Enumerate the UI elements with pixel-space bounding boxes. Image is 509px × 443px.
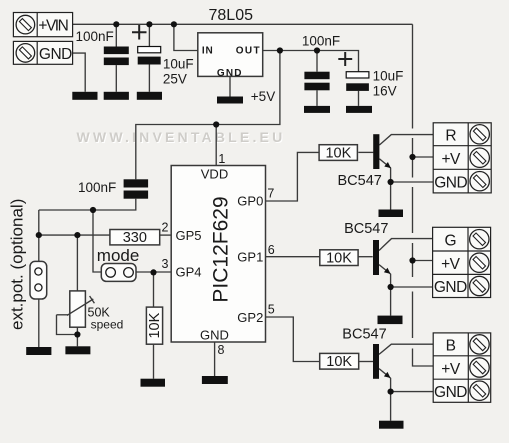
svg-text:8: 8 — [218, 343, 225, 357]
svg-text:+V: +V — [441, 361, 461, 378]
svg-text:6: 6 — [268, 243, 275, 257]
svg-text:100nF: 100nF — [76, 29, 114, 44]
svg-text:GND: GND — [434, 279, 467, 296]
svg-text:7: 7 — [267, 186, 274, 200]
svg-text:+V: +V — [441, 256, 461, 273]
svg-text:GP1: GP1 — [237, 250, 263, 265]
svg-text:B: B — [446, 338, 456, 355]
svg-text:10K: 10K — [326, 251, 352, 267]
svg-text:5: 5 — [268, 303, 275, 317]
svg-text:R: R — [445, 128, 456, 145]
svg-text:GP5: GP5 — [176, 228, 202, 243]
svg-text:GND: GND — [434, 174, 467, 191]
svg-text:100nF: 100nF — [302, 34, 340, 49]
svg-text:78L05: 78L05 — [209, 7, 254, 24]
svg-text:330: 330 — [123, 230, 147, 246]
svg-text:25V: 25V — [163, 71, 187, 86]
svg-text:+V: +V — [442, 151, 462, 168]
svg-text:10K: 10K — [325, 146, 351, 162]
svg-text:BC547: BC547 — [344, 221, 388, 237]
svg-text:16V: 16V — [373, 84, 397, 99]
svg-text:OUT: OUT — [236, 45, 261, 56]
svg-text:PIC12F629: PIC12F629 — [210, 196, 233, 302]
svg-text:GND: GND — [200, 328, 229, 343]
svg-text:+VIN: +VIN — [38, 18, 67, 35]
svg-text:2: 2 — [162, 221, 169, 235]
svg-text:GP4: GP4 — [176, 265, 202, 280]
svg-text:VDD: VDD — [201, 167, 228, 182]
svg-text:10uF: 10uF — [163, 57, 194, 72]
svg-text:mode: mode — [97, 246, 140, 265]
svg-text:+5V: +5V — [251, 89, 275, 104]
svg-text:G: G — [445, 232, 457, 249]
svg-text:10K: 10K — [147, 312, 163, 338]
svg-text:BC547: BC547 — [338, 173, 382, 189]
svg-text:GP0: GP0 — [237, 194, 263, 209]
svg-text:GND: GND — [434, 384, 467, 401]
svg-text:3: 3 — [162, 257, 169, 271]
svg-text:10K: 10K — [326, 354, 352, 370]
svg-text:IN: IN — [202, 45, 214, 56]
svg-text:GND: GND — [217, 68, 243, 79]
svg-text:WWW.INVENTABLE.EU: WWW.INVENTABLE.EU — [77, 129, 286, 145]
svg-text:BC547: BC547 — [342, 327, 386, 343]
svg-text:GND: GND — [39, 46, 72, 63]
svg-text:10uF: 10uF — [373, 69, 404, 84]
svg-text:1: 1 — [218, 152, 225, 166]
svg-text:ext.pot. (optional): ext.pot. (optional) — [7, 199, 26, 330]
svg-text:speed: speed — [91, 318, 124, 332]
svg-text:100nF: 100nF — [78, 180, 116, 195]
svg-text:GP2: GP2 — [237, 310, 263, 325]
